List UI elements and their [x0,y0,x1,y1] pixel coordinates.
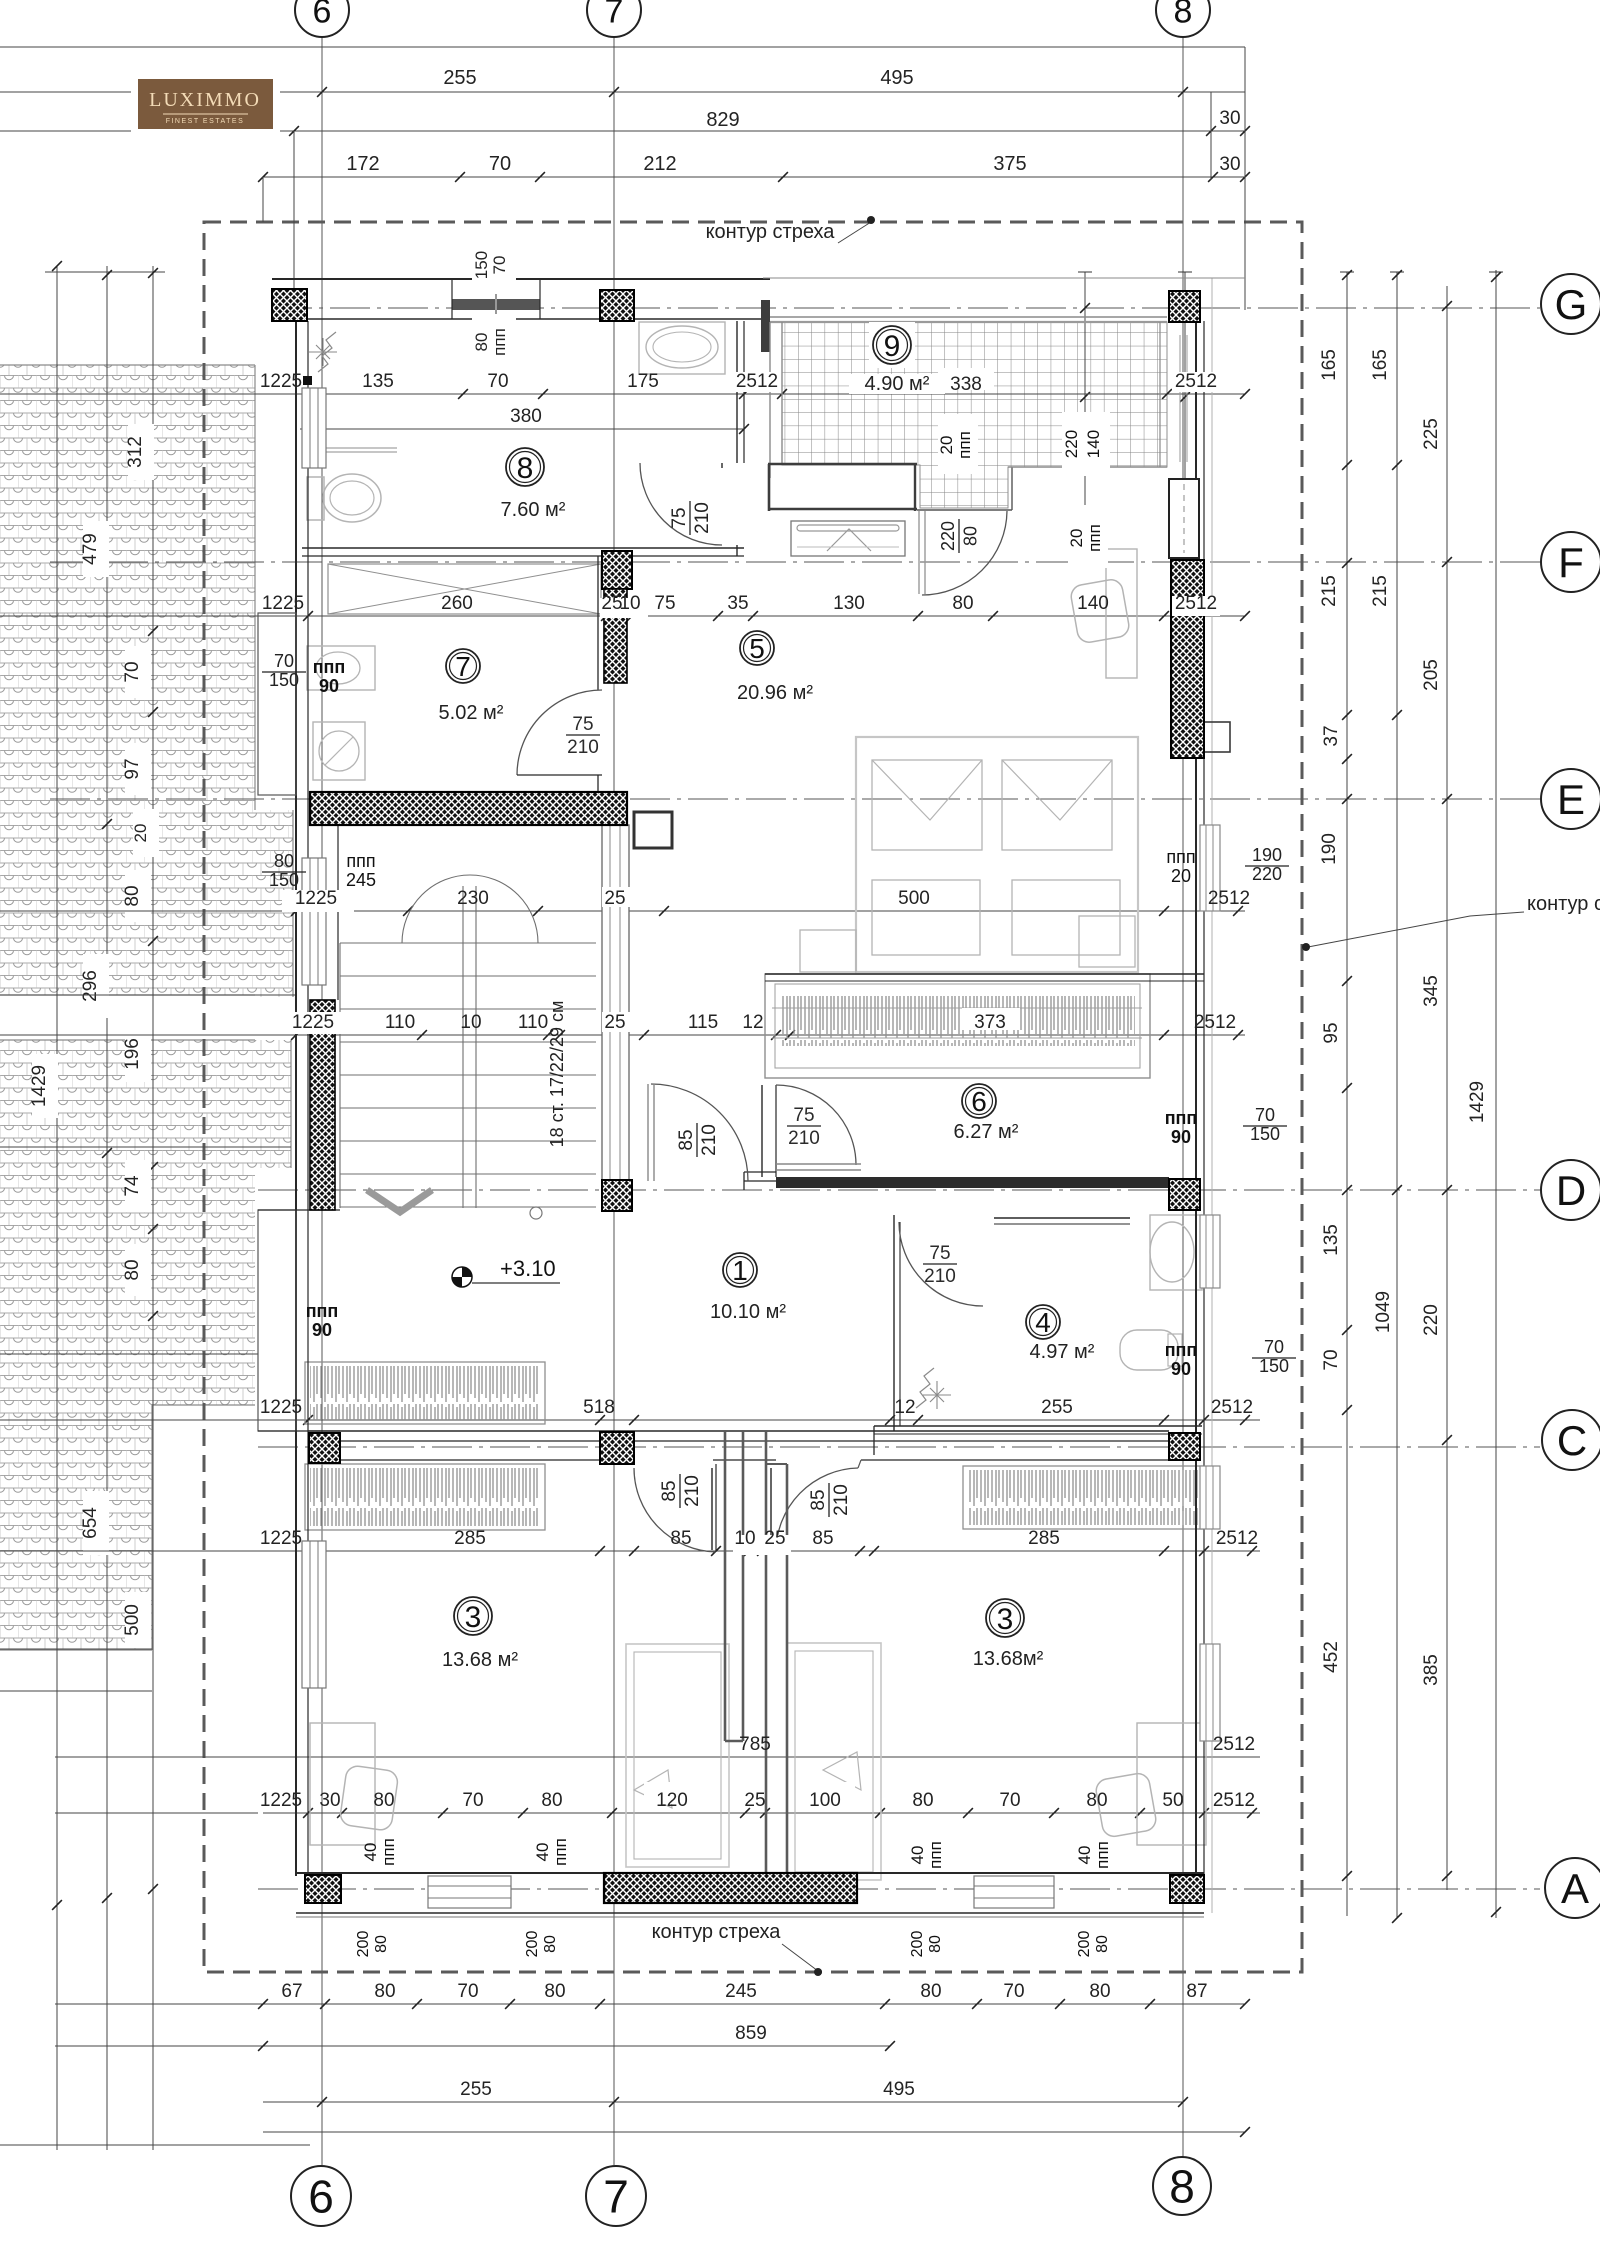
svg-text:контур стреха: контур стреха [706,221,836,243]
svg-text:95: 95 [1321,1022,1342,1043]
svg-text:80: 80 [541,1790,562,1811]
svg-text:G: G [1555,281,1588,328]
svg-text:7.60 м²: 7.60 м² [501,499,566,521]
svg-text:4.90 м²: 4.90 м² [865,373,930,395]
svg-text:220: 220 [1252,864,1282,884]
svg-text:20: 20 [1171,866,1191,886]
svg-text:30: 30 [319,1790,340,1811]
svg-text:210: 210 [682,1475,703,1507]
svg-text:контур стреха: контур стреха [652,1921,782,1943]
svg-text:80: 80 [912,1790,933,1811]
svg-text:75: 75 [572,714,593,735]
svg-text:70: 70 [274,651,294,671]
svg-text:3: 3 [997,1603,1014,1636]
svg-text:70: 70 [1003,1981,1024,2002]
svg-text:479: 479 [80,533,101,565]
svg-text:1: 1 [732,1255,748,1286]
svg-text:2512: 2512 [1213,1790,1255,1811]
svg-text:90: 90 [319,676,339,696]
svg-text:285: 285 [454,1528,486,1549]
svg-text:D: D [1556,1167,1586,1214]
svg-text:85: 85 [659,1480,680,1501]
svg-text:7: 7 [603,2171,629,2223]
svg-text:70: 70 [489,153,511,175]
svg-text:10: 10 [619,593,640,614]
svg-text:785: 785 [739,1734,771,1755]
svg-text:150: 150 [1250,1124,1280,1144]
svg-text:+3.10: +3.10 [500,1256,556,1281]
svg-text:A: A [1561,1865,1589,1912]
svg-text:80: 80 [274,851,294,871]
svg-text:495: 495 [880,67,913,89]
svg-text:80: 80 [960,526,980,546]
svg-text:2512: 2512 [1208,888,1250,909]
svg-text:110: 110 [518,1012,548,1033]
svg-text:97: 97 [122,758,143,779]
svg-text:ппп: ппп [926,1841,945,1869]
svg-text:ппп: ппп [551,1838,570,1866]
svg-text:245: 245 [725,1981,757,2002]
svg-text:200: 200 [1076,1931,1093,1958]
svg-text:215: 215 [1319,575,1340,607]
svg-text:210: 210 [788,1128,820,1149]
svg-text:135: 135 [362,371,394,392]
svg-text:230: 230 [457,888,489,909]
svg-text:87: 87 [1186,1981,1207,2002]
svg-text:80: 80 [544,1981,565,2002]
svg-text:2512: 2512 [1216,1528,1258,1549]
svg-text:12: 12 [742,1012,763,1033]
svg-text:495: 495 [883,2079,915,2100]
svg-text:40: 40 [533,1843,552,1862]
svg-text:80: 80 [1086,1790,1107,1811]
svg-text:ппп: ппп [306,1301,339,1321]
svg-text:E: E [1557,776,1585,823]
svg-text:10.10 м²: 10.10 м² [710,1301,786,1323]
svg-text:8: 8 [1169,2161,1195,2213]
svg-text:ппп: ппп [955,431,974,459]
svg-text:338: 338 [950,374,982,395]
svg-text:5: 5 [749,633,765,664]
svg-text:30: 30 [1219,154,1240,175]
svg-text:74: 74 [122,1175,143,1197]
svg-text:20: 20 [131,824,150,843]
svg-text:13.68 м²: 13.68 м² [442,1649,518,1671]
svg-text:85: 85 [808,1489,829,1510]
svg-text:75: 75 [669,507,690,528]
svg-text:50: 50 [1162,1790,1183,1811]
svg-text:1225: 1225 [292,1012,334,1033]
svg-text:25: 25 [604,1012,625,1033]
svg-text:196: 196 [122,1038,143,1070]
svg-text:12: 12 [894,1397,915,1418]
svg-text:500: 500 [122,1604,143,1636]
svg-text:150: 150 [472,251,491,279]
svg-text:312: 312 [125,436,146,468]
svg-text:4.97 м²: 4.97 м² [1030,1341,1095,1363]
svg-text:80: 80 [373,1935,390,1953]
svg-text:10: 10 [460,1012,481,1033]
svg-text:215: 215 [1370,575,1391,607]
svg-text:110: 110 [385,1012,415,1033]
svg-text:3: 3 [465,1601,482,1634]
svg-text:1225: 1225 [260,371,302,392]
svg-text:210: 210 [699,1124,720,1156]
svg-text:165: 165 [1370,349,1391,381]
svg-text:LUXIMMO: LUXIMMO [149,89,261,111]
svg-text:F: F [1558,539,1584,586]
svg-text:7: 7 [455,651,471,682]
svg-text:ппп: ппп [490,328,509,356]
svg-text:70: 70 [490,256,509,275]
svg-text:1225: 1225 [260,1397,302,1418]
svg-text:8: 8 [1174,0,1193,30]
svg-text:70: 70 [457,1981,478,2002]
svg-text:40: 40 [1075,1846,1094,1865]
svg-text:ппп: ппп [1165,1340,1198,1360]
svg-text:90: 90 [1171,1359,1191,1379]
svg-text:90: 90 [1171,1127,1191,1147]
svg-text:8: 8 [517,452,534,485]
svg-text:67: 67 [281,1981,302,2002]
svg-text:1429: 1429 [29,1065,50,1107]
svg-text:1049: 1049 [1373,1291,1394,1333]
svg-text:ппп: ппп [379,1838,398,1866]
svg-text:190: 190 [1252,845,1282,865]
svg-text:654: 654 [80,1507,101,1539]
svg-text:20: 20 [937,436,956,455]
svg-text:130: 130 [833,593,865,614]
svg-text:859: 859 [735,2023,767,2044]
svg-text:385: 385 [1421,1654,1442,1686]
svg-text:25: 25 [764,1528,785,1549]
svg-text:212: 212 [643,153,676,175]
svg-text:70: 70 [999,1790,1020,1811]
svg-text:115: 115 [688,1012,718,1033]
svg-text:75: 75 [929,1243,950,1264]
svg-text:6: 6 [313,0,332,30]
svg-text:1225: 1225 [260,1790,302,1811]
svg-text:FINEST ESTATES: FINEST ESTATES [166,118,245,125]
svg-text:25: 25 [744,1790,765,1811]
svg-text:829: 829 [706,109,739,131]
svg-text:220: 220 [1421,1304,1442,1336]
svg-text:2512: 2512 [1194,1012,1236,1033]
svg-text:100: 100 [809,1790,841,1811]
svg-text:5.02 м²: 5.02 м² [439,702,504,724]
svg-text:80: 80 [373,1790,394,1811]
svg-text:80: 80 [472,333,491,352]
svg-text:200: 200 [355,1931,372,1958]
svg-text:контур с: контур с [1527,893,1600,915]
svg-text:25: 25 [604,888,625,909]
svg-text:120: 120 [656,1790,688,1811]
svg-text:200: 200 [524,1931,541,1958]
svg-text:1225: 1225 [262,593,304,614]
svg-text:220: 220 [938,521,958,551]
svg-text:373: 373 [974,1012,1006,1033]
svg-text:70: 70 [1321,1349,1342,1370]
svg-text:172: 172 [346,153,379,175]
svg-text:210: 210 [692,502,713,534]
svg-text:37: 37 [1321,725,1342,746]
svg-text:500: 500 [898,888,930,909]
svg-text:260: 260 [441,593,473,614]
svg-text:6.27 м²: 6.27 м² [954,1121,1019,1143]
svg-text:70: 70 [462,1790,483,1811]
svg-text:ппп: ппп [313,657,346,677]
svg-text:80: 80 [1089,1981,1110,2002]
svg-text:255: 255 [460,2079,492,2100]
svg-text:190: 190 [1319,833,1340,865]
svg-text:2512: 2512 [1175,371,1217,392]
svg-text:C: C [1557,1417,1587,1464]
svg-text:2512: 2512 [1211,1397,1253,1418]
svg-text:ппп: ппп [1166,847,1195,867]
svg-text:20.96 м²: 20.96 м² [737,682,813,704]
svg-text:70: 70 [1264,1337,1284,1357]
svg-text:345: 345 [1421,975,1442,1007]
svg-text:35: 35 [727,593,748,614]
svg-text:70: 70 [487,371,508,392]
svg-text:9: 9 [884,330,901,363]
svg-text:225: 225 [1421,418,1442,450]
svg-text:296: 296 [80,970,101,1002]
svg-text:ппп: ппп [1165,1108,1198,1128]
svg-text:85: 85 [670,1528,691,1549]
svg-text:75: 75 [793,1105,814,1126]
svg-text:40: 40 [361,1843,380,1862]
svg-text:6: 6 [308,2171,334,2223]
svg-text:80: 80 [1094,1935,1111,1953]
svg-text:135: 135 [1321,1224,1342,1256]
svg-text:40: 40 [908,1846,927,1865]
svg-text:245: 245 [346,870,376,890]
svg-text:ппп: ппп [346,851,375,871]
svg-text:80: 80 [920,1981,941,2002]
svg-text:80: 80 [122,885,143,906]
svg-text:20: 20 [1067,529,1086,548]
svg-text:6: 6 [971,1086,987,1117]
svg-text:200: 200 [909,1931,926,1958]
svg-text:255: 255 [443,67,476,89]
svg-text:80: 80 [122,1259,143,1280]
svg-text:150: 150 [269,670,299,690]
svg-text:30: 30 [1219,108,1240,129]
svg-text:2512: 2512 [1213,1734,1255,1755]
svg-text:220: 220 [1062,430,1081,458]
svg-text:80: 80 [927,1935,944,1953]
svg-text:85: 85 [812,1528,833,1549]
svg-text:13.68м²: 13.68м² [973,1648,1044,1670]
svg-text:80: 80 [952,593,973,614]
svg-text:205: 205 [1421,659,1442,691]
svg-text:4: 4 [1035,1307,1051,1338]
svg-text:375: 375 [993,153,1026,175]
svg-text:140: 140 [1084,430,1103,458]
svg-text:7: 7 [605,0,624,30]
svg-text:90: 90 [312,1320,332,1340]
svg-text:210: 210 [924,1266,956,1287]
svg-text:1225: 1225 [295,888,337,909]
svg-text:75: 75 [654,593,675,614]
svg-text:1429: 1429 [1467,1081,1488,1123]
svg-text:1225: 1225 [260,1528,302,1549]
svg-text:165: 165 [1319,349,1340,381]
svg-text:255: 255 [1041,1397,1073,1418]
svg-text:285: 285 [1028,1528,1060,1549]
svg-text:70: 70 [1255,1105,1275,1125]
svg-text:ппп: ппп [1093,1841,1112,1869]
svg-text:2512: 2512 [1175,593,1217,614]
svg-text:452: 452 [1321,1641,1342,1673]
svg-text:210: 210 [567,737,599,758]
svg-text:518: 518 [583,1397,615,1418]
svg-text:210: 210 [831,1484,852,1516]
svg-text:140: 140 [1077,593,1109,614]
svg-text:175: 175 [627,371,659,392]
svg-text:85: 85 [676,1129,697,1150]
svg-text:80: 80 [542,1935,559,1953]
svg-text:70: 70 [122,661,143,682]
svg-text:10: 10 [734,1528,755,1549]
svg-text:80: 80 [374,1981,395,2002]
svg-text:380: 380 [510,406,542,427]
svg-text:150: 150 [1259,1356,1289,1376]
svg-text:2512: 2512 [736,371,778,392]
svg-text:18 ст. 17/22/29 см: 18 ст. 17/22/29 см [547,1001,567,1148]
svg-text:ппп: ппп [1085,524,1104,552]
svg-text:150: 150 [269,870,299,890]
